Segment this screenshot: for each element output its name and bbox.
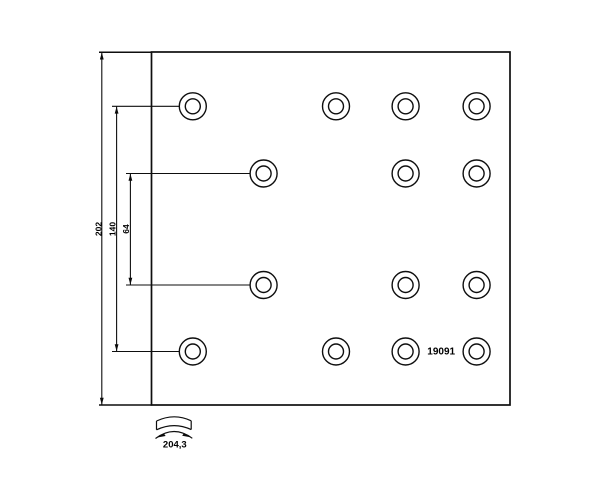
arrow 202 bottom <box>100 398 104 405</box>
hole H9 row3 col3 <box>392 272 419 299</box>
lining profile bottom arc <box>157 426 192 430</box>
arrow 140 bottom <box>115 344 119 351</box>
dimension line 64 <box>129 174 131 286</box>
dimension line 140 <box>116 106 118 351</box>
svg-text:64: 64 <box>121 224 131 234</box>
leader row1 <box>112 105 179 107</box>
svg-text:140: 140 <box>108 222 118 236</box>
hole H12 row4 col2 <box>323 338 350 365</box>
hole H10 row3 col4 <box>463 272 490 299</box>
lining profile left edge <box>156 421 158 430</box>
lining profile right edge <box>190 421 192 430</box>
arrow 64 top <box>129 174 133 181</box>
arc dimension arrow left <box>157 433 166 437</box>
plate outline <box>152 52 511 405</box>
leader row4 <box>112 351 179 353</box>
hole H2 row1 col2 <box>323 93 350 120</box>
svg-text:19091: 19091 <box>427 347 455 358</box>
svg-text:202: 202 <box>93 222 103 236</box>
hole H13 row4 col3 <box>392 338 419 365</box>
svg-text:204,3: 204,3 <box>163 439 187 450</box>
arrow 140 top <box>115 107 119 114</box>
hole H3 row1 col3 <box>392 93 419 120</box>
dimension line 202 <box>101 52 103 405</box>
leader row2 <box>126 173 250 175</box>
arrow 202 top <box>100 53 104 60</box>
arrow 64 bottom <box>129 278 133 285</box>
hole H11 row4 col1 <box>179 338 206 365</box>
lining profile top arc <box>157 417 192 421</box>
hole H6 row2 col3 <box>392 160 419 187</box>
bottom edge extension line <box>99 404 152 406</box>
hole H14 row4 col4 <box>463 338 490 365</box>
arc dimension arrow right <box>182 433 191 437</box>
hole H8 row3 mid <box>250 272 277 299</box>
hole H4 row1 col4 <box>463 93 490 120</box>
hole H5 row2 mid <box>250 160 277 187</box>
leader row3 <box>126 284 250 286</box>
hole H1 row1 col1 <box>179 93 206 120</box>
top edge extension line <box>99 51 152 53</box>
arc dimension line 204,3 <box>156 431 193 438</box>
hole H7 row2 col4 <box>463 160 490 187</box>
